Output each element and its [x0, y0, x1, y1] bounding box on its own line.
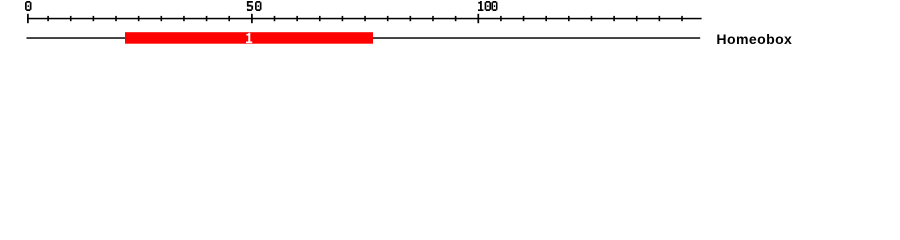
svg-text:Homeobox: Homeobox — [716, 31, 792, 47]
ruler label 0 — [25, 1, 32, 11]
minor tick 125 — [591, 16, 593, 21]
background — [0, 0, 900, 58]
minor tick 45 — [228, 16, 230, 21]
minor tick 75 — [364, 16, 366, 21]
minor tick 5 — [47, 16, 49, 21]
minor tick 105 — [500, 16, 502, 21]
match number 1 (white) — [246, 33, 252, 43]
minor tick 95 — [455, 16, 457, 21]
minor tick 25 — [138, 16, 140, 21]
minor tick 85 — [410, 16, 412, 21]
minor tick 55 — [274, 16, 276, 21]
minor tick 65 — [319, 16, 321, 21]
minor tick 80 — [387, 16, 389, 21]
minor tick 140 — [659, 16, 661, 21]
minor tick 120 — [568, 16, 570, 21]
ruler label 50 — [247, 1, 262, 11]
major tick 50 — [251, 14, 253, 23]
minor tick 35 — [183, 16, 185, 21]
minor tick 30 — [161, 16, 163, 21]
minor tick 70 — [342, 16, 344, 21]
minor tick 40 — [206, 16, 208, 21]
ruler label 100 — [478, 1, 497, 11]
minor tick 130 — [613, 16, 615, 21]
ruler line — [27, 18, 702, 20]
minor tick 60 — [296, 16, 298, 21]
minor tick 20 — [115, 16, 117, 21]
domain match box (red) — [125, 32, 373, 44]
minor tick 135 — [636, 16, 638, 21]
sequence line — [27, 37, 701, 38]
minor tick 110 — [523, 16, 525, 21]
minor tick 145 — [681, 16, 683, 21]
minor tick 10 — [70, 16, 72, 21]
minor tick 15 — [93, 16, 95, 21]
minor tick 115 — [545, 16, 547, 21]
major tick 100 — [477, 14, 479, 23]
minor tick 90 — [432, 16, 434, 21]
major tick 0 — [27, 14, 29, 23]
